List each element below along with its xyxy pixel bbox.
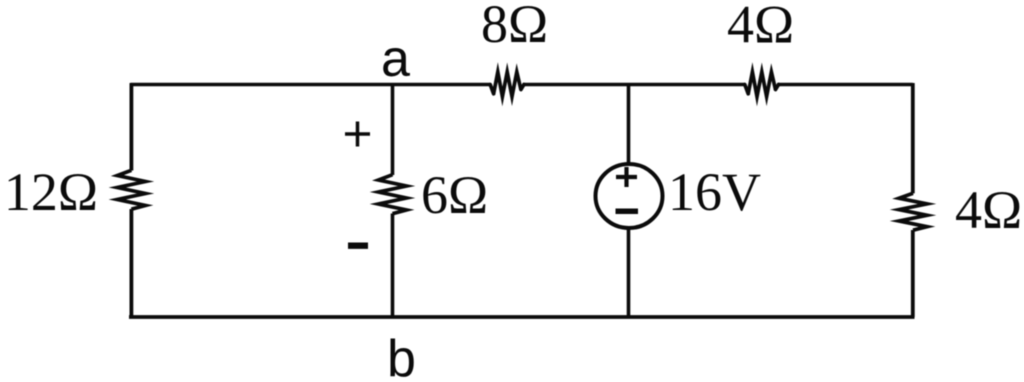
svg-text:8Ω: 8Ω bbox=[481, 0, 548, 54]
svg-text:12Ω: 12Ω bbox=[4, 162, 98, 222]
svg-text:a: a bbox=[381, 30, 410, 88]
svg-text:16V: 16V bbox=[668, 162, 761, 222]
svg-text:4Ω: 4Ω bbox=[955, 180, 1022, 240]
svg-text:b: b bbox=[387, 330, 416, 382]
svg-text:6Ω: 6Ω bbox=[421, 165, 488, 225]
svg-text:4Ω: 4Ω bbox=[727, 0, 794, 55]
